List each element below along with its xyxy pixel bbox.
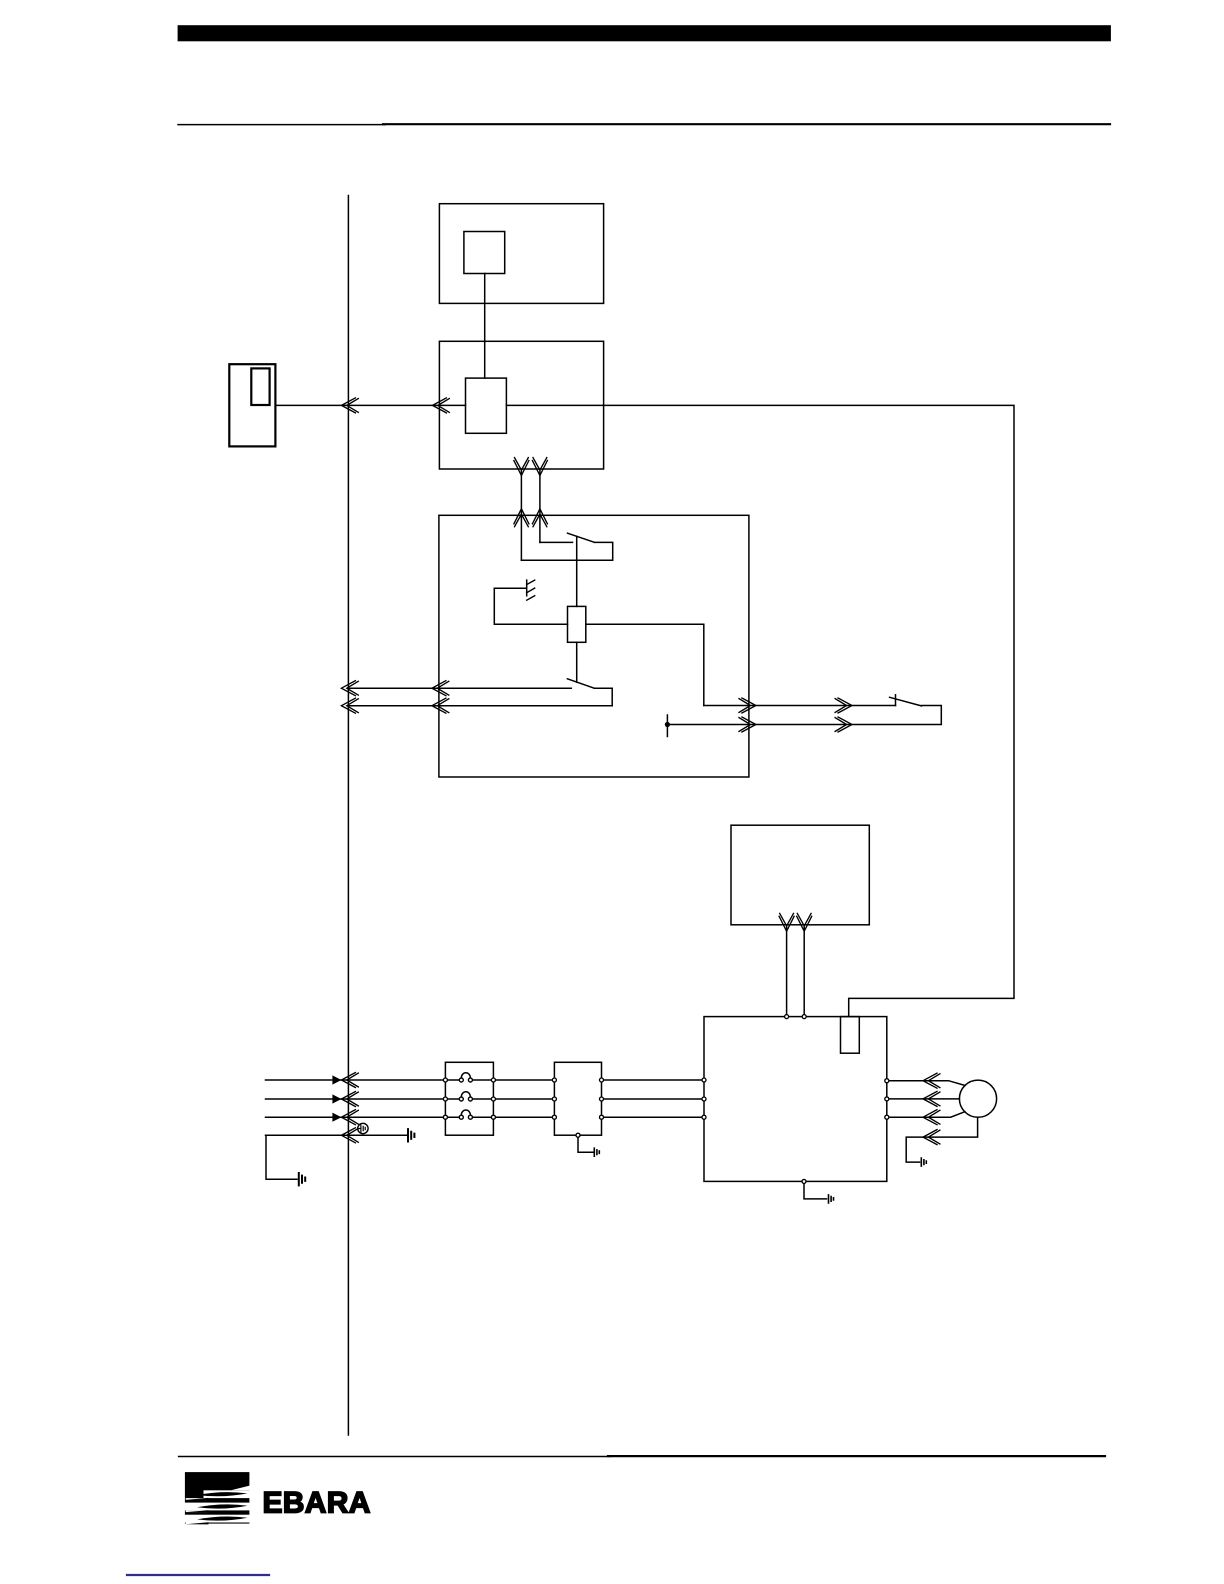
svg-text:EBARA: EBARA xyxy=(263,1486,371,1519)
